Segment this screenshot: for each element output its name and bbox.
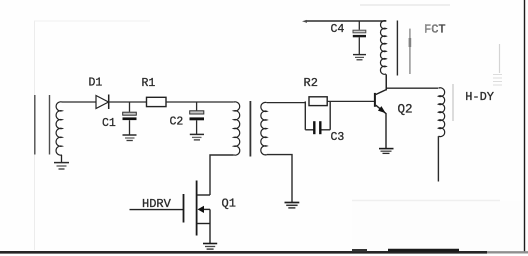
svg-text:C1: C1	[102, 117, 116, 130]
svg-text:Q1: Q1	[222, 197, 236, 211]
svg-text:HDRV: HDRV	[142, 197, 172, 211]
svg-text:H-DY: H-DY	[465, 90, 494, 104]
svg-text:C2: C2	[170, 116, 184, 129]
svg-text:FCT: FCT	[424, 23, 446, 37]
svg-text:C3: C3	[331, 131, 345, 144]
svg-text:C4: C4	[331, 23, 345, 36]
svg-text:R2: R2	[304, 76, 318, 90]
svg-text:Q2: Q2	[398, 102, 413, 116]
svg-text:R1: R1	[142, 77, 156, 90]
svg-text:D1: D1	[89, 77, 103, 90]
